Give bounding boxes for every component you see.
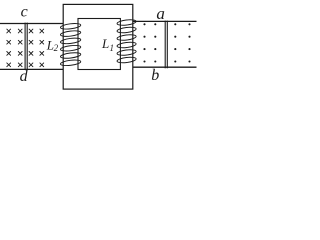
svg-text:L: L — [101, 36, 109, 51]
inner circuit rectangle — [78, 19, 120, 70]
left top rail — [0, 23, 63, 25]
rod cd (double line) — [25, 23, 27, 70]
svg-text:1: 1 — [110, 43, 115, 53]
svg-text:b: b — [151, 67, 159, 84]
x field symbols (into page), 4 rows x 4 cols — [7, 29, 44, 67]
right bottom rail — [133, 66, 197, 68]
svg-text:2: 2 — [54, 43, 59, 53]
coil L2 (6 turns around left edges) — [60, 23, 81, 67]
rod ab (double line) — [165, 21, 167, 69]
svg-text:a: a — [156, 4, 165, 23]
outer circuit rectangle — [63, 4, 133, 89]
right top rail — [133, 20, 197, 22]
left bottom rail — [0, 68, 63, 70]
svg-text:d: d — [20, 68, 29, 85]
svg-text:c: c — [21, 4, 28, 21]
dot field symbols (out of page), 4 rows x 4 cols — [143, 23, 190, 62]
coil L1 (6 turns around right edges) — [117, 19, 137, 64]
